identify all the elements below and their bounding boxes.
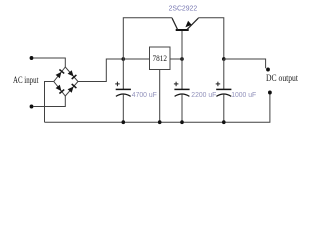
wire: regulator ground pin down to rail [159,70,161,123]
diode D2 (bridge top-right) [68,70,77,79]
DC output bottom terminal dot [268,91,272,95]
wire: node A up and right along top rail to transistor collector [123,18,172,59]
capacitor C1 plus sign [115,82,120,87]
AC input bottom terminal dot [30,105,34,109]
capacitor C3 plus sign [216,82,221,87]
svg-text:1000 uF: 1000 uF [231,92,256,99]
wire: node A right into regulator input [123,58,149,60]
capacitor C3 curved bottom plate [216,94,231,96]
wire: node C right to DC output top terminal [224,59,266,68]
capacitor C2 curved bottom plate [175,94,190,96]
transistor Q1 collector lead (diagonal to top rail) [172,18,178,29]
node A junction dot (raw DC +) [122,57,126,61]
junction dot: regulator ground at rail [158,120,162,124]
diode D4 (bridge bottom-right) [68,84,77,93]
capacitor C1 top plate [116,88,131,90]
wire: node B up to transistor base [181,31,183,60]
capacitor C1 top lead wire [122,59,124,89]
wire: AC bottom terminal to bridge bottom [33,96,65,107]
junction dot at bottom of C1 [122,120,126,124]
transistor Q1 base bar [176,29,189,31]
diode D3 (bridge bottom-left) [56,85,65,94]
wire: bridge negative (left vertex) down to ground rail [45,82,54,123]
capacitor C2 top lead wire [181,59,183,89]
AC input top terminal dot [30,56,34,60]
capacitor C3 bottom lead wire [223,95,225,123]
capacitor C2 plus sign [174,82,179,87]
wire: regulator output to node B [170,58,182,60]
capacitor C3 top lead wire [223,59,225,89]
capacitor C1 bottom lead wire [122,95,124,123]
bridge rectifier diamond outline [54,67,78,96]
wire: bridge positive (right vertex) up to node A [78,59,123,82]
ground rail wire (bottom) [45,93,270,122]
capacitor C1 curved bottom plate [116,94,131,96]
capacitor C2 top plate [174,88,189,90]
node B junction dot (regulator output / base node) [180,57,184,61]
diode D1 (bridge top-left) [56,70,65,79]
svg-text:7812: 7812 [153,54,168,63]
svg-text:AC input: AC input [13,75,39,85]
wire: emitter top rail right segment down to node C [198,18,224,59]
transistor Q1 emitter arrowhead [185,21,191,27]
regulator U1 7812 box [150,47,171,70]
svg-text:2200 uF: 2200 uF [191,92,216,99]
junction dot at bottom of C3 [222,120,226,124]
svg-text:2SC2922: 2SC2922 [169,6,198,13]
node C junction dot (emitter / output node) [222,57,226,61]
wire: AC top terminal to bridge top [33,58,65,67]
DC output top terminal dot [266,68,270,72]
capacitor C2 bottom lead wire [181,95,183,123]
transistor Q1 emitter lead (diagonal with arrow) [187,18,198,30]
capacitor C3 top plate [216,88,231,90]
junction dot at bottom of C2 [180,120,184,124]
svg-text:DC output: DC output [266,73,298,83]
svg-text:4700 uF: 4700 uF [132,92,157,99]
